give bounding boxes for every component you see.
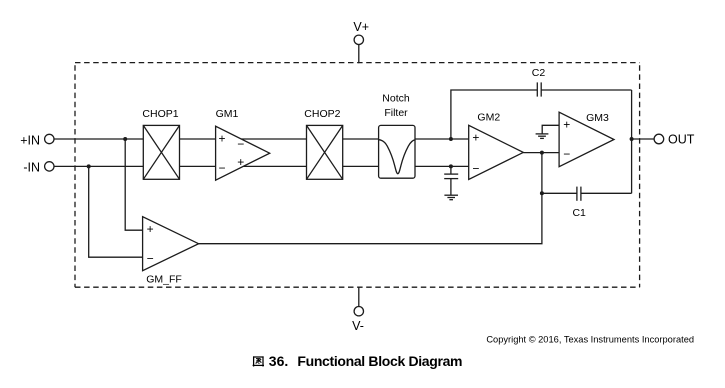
- wire OUT: [632, 138, 655, 140]
- svg-text:V-: V-: [352, 319, 364, 333]
- svg-text:GM2: GM2: [477, 112, 500, 124]
- svg-text:−: −: [219, 161, 226, 175]
- svg-text:Filter: Filter: [384, 107, 408, 119]
- ground symbol at GM3 + input: [536, 134, 549, 139]
- terminal +IN: [45, 134, 54, 143]
- capacitor to ground at GM2 input: [444, 174, 458, 179]
- wire V+ stem: [358, 44, 360, 63]
- svg-text:+: +: [472, 131, 479, 145]
- wire GM_FF + input: [125, 139, 142, 230]
- op-amp GM2: [469, 125, 524, 179]
- svg-text:+: +: [563, 117, 570, 131]
- op-amp GM_FF: [143, 217, 199, 271]
- junction node GM2 output: [540, 151, 544, 155]
- figure caption ideograph (tu): [253, 356, 264, 366]
- svg-text:CHOP2: CHOP2: [304, 108, 340, 120]
- svg-text:−: −: [237, 137, 244, 151]
- terminal -IN: [45, 162, 54, 171]
- capacitor C1: [577, 187, 581, 201]
- svg-text:+: +: [219, 132, 226, 146]
- dashed chip boundary: [75, 63, 640, 288]
- junction node output: [630, 137, 634, 141]
- svg-text:+IN: +IN: [20, 133, 40, 147]
- junction node -IN to GM_FF: [87, 164, 91, 168]
- notch filter block: [379, 125, 416, 178]
- svg-text:V+: V+: [353, 20, 369, 34]
- junction node C1 left: [540, 191, 544, 195]
- wire GM_FF - input: [89, 166, 142, 257]
- wire GM3 + input ground stub: [542, 125, 559, 134]
- wire right vertical (C2/OUT/C1): [631, 90, 633, 193]
- op-amp GM1: [216, 126, 270, 180]
- wire V- stem: [358, 287, 360, 306]
- terminal OUT: [654, 134, 664, 144]
- svg-text:GM1: GM1: [216, 108, 239, 120]
- svg-text:+: +: [147, 222, 154, 236]
- svg-text:-IN: -IN: [23, 161, 40, 175]
- wire notch output cap stub: [450, 166, 452, 174]
- terminal V+: [354, 35, 363, 44]
- wire C2 top feedback right segment: [541, 89, 631, 91]
- wire C1 right segment: [581, 192, 632, 194]
- svg-text:OUT: OUT: [668, 133, 695, 147]
- op-amp GM3: [559, 112, 614, 167]
- junction node notch out top: [449, 137, 453, 141]
- ground symbol at GM2 input: [444, 195, 458, 200]
- capacitor C2: [537, 82, 541, 96]
- svg-text:Notch: Notch: [382, 93, 410, 105]
- wire GM_FF output feedback: [198, 153, 542, 244]
- svg-text:36.: 36.: [269, 353, 288, 369]
- svg-text:C2: C2: [532, 67, 546, 79]
- svg-text:C1: C1: [572, 207, 586, 219]
- junction node notch out bottom: [449, 164, 453, 168]
- wire C1 left segment: [542, 192, 577, 194]
- svg-text:GM3: GM3: [586, 112, 609, 124]
- svg-text:−: −: [472, 162, 479, 176]
- svg-text:Functional Block Diagram: Functional Block Diagram: [297, 353, 462, 369]
- svg-text:GM_FF: GM_FF: [146, 274, 182, 286]
- wire -IN rail: [54, 165, 469, 167]
- wire GM2 output: [523, 152, 559, 154]
- svg-text:CHOP1: CHOP1: [142, 108, 178, 120]
- svg-text:−: −: [563, 147, 570, 161]
- wire cap to ground: [450, 179, 452, 196]
- chopper CHOP2: [307, 125, 343, 179]
- svg-text:+: +: [237, 155, 244, 169]
- svg-text:−: −: [147, 251, 154, 265]
- wire C2 top feedback left segment: [451, 90, 537, 139]
- terminal V-: [354, 307, 363, 316]
- wire +IN rail: [54, 138, 469, 140]
- label Notch Filter: [382, 93, 410, 119]
- chopper CHOP1: [143, 125, 179, 179]
- junction node +IN to GM_FF: [123, 137, 127, 141]
- svg-text:Copyright © 2016, Texas Instru: Copyright © 2016, Texas Instruments Inco…: [486, 334, 694, 344]
